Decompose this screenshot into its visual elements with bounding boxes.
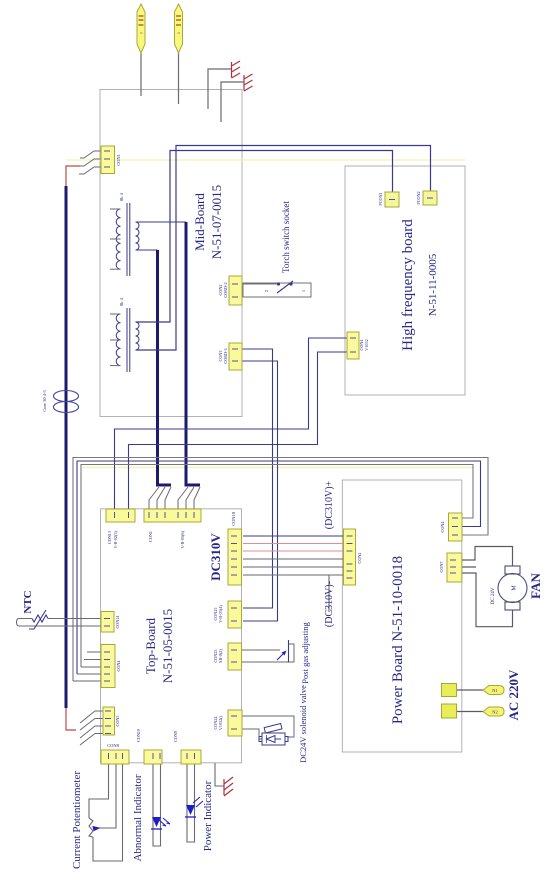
svg-text:Torch switch socket: Torch switch socket (281, 201, 291, 273)
wire CON3.1 to CON25.1 (242, 349, 273, 608)
svg-text:1: 1 (301, 290, 306, 292)
connector PCON1 High frequency board (378, 192, 399, 207)
torch switch socket outline (243, 283, 311, 297)
svg-text:V-H-02(3): V-H-02(3) (113, 530, 118, 548)
wire T2 secondary top to PCON1 (136, 151, 393, 323)
wire current potentiometer (89, 764, 123, 861)
wire CON1 Mid-Board fan-out (79, 151, 101, 174)
board High frequency board N-51-11-0005 outline (345, 166, 465, 395)
board label High frequency board (400, 219, 439, 351)
svg-text:High frequency board: High frequency board (400, 219, 416, 351)
wire torch socket 1 lead (140, 53, 142, 96)
wire DC310V to CON2 line2 pink (243, 543, 344, 545)
FAN motor (498, 566, 527, 610)
svg-text:0k 4: 0k 4 (119, 192, 124, 201)
connector CON10 Top-Board bottom (136, 729, 162, 764)
wire AC square 1 to terminal (457, 689, 484, 691)
svg-text:PCON1: PCON1 (378, 192, 383, 205)
connector CON13 Top-Board (106, 509, 135, 549)
wire CON2 Mid-Board to switch (242, 283, 277, 285)
svg-text:DC310V: DC310V (208, 533, 223, 581)
wire T1 secondary bottom to thick bus x157.5 (136, 249, 158, 251)
wire torch socket 2 lead (178, 53, 180, 104)
svg-text:CON4: CON4 (116, 660, 121, 672)
connector CON23 Top-Board (213, 643, 242, 670)
svg-text:CON14: CON14 (115, 615, 120, 629)
wire pale yellow net mid horizontal (81, 467, 473, 469)
svg-text:N2: N2 (492, 710, 498, 715)
transformer T1 (116, 203, 139, 276)
svg-text:SH-0(2): SH-0(2) (218, 649, 223, 663)
transformer T1 taps (110, 209, 121, 269)
wire DC310V to CON2 line4 gray (243, 558, 344, 560)
AC line terminal N2 (483, 707, 504, 716)
transformer T2 taps (110, 314, 121, 366)
wire CON24 to solenoid valve (242, 716, 294, 739)
svg-text:CON4: CON4 (440, 521, 445, 533)
connector CON14 Top-Board (101, 612, 120, 633)
wire red link to CON5 fan (66, 708, 76, 730)
wire mid bus line 2 (77, 461, 481, 674)
wire AC square 2 to terminal (457, 711, 484, 713)
wire CON5 fan-out (80, 711, 103, 745)
AC terminal block 1 (442, 684, 457, 697)
wire ground A lead (208, 69, 232, 109)
svg-text:Power Board N-51-10-0018: Power Board N-51-10-0018 (390, 556, 406, 724)
board Mid-Board N-51-07-0015 outline (100, 90, 242, 417)
wire CON13.1 to HF CON4.1 (115, 338, 348, 509)
torch output socket 1 (137, 4, 145, 53)
svg-text:DC 24V: DC 24V (491, 587, 496, 604)
wire ground B lead (221, 82, 244, 122)
svg-text:AC 220V: AC 220V (506, 669, 521, 721)
svg-text:Core 30 4-5: Core 30 4-5 (42, 390, 47, 412)
svg-text:CON1: CON1 (148, 531, 153, 542)
ferrite core on main lead (54, 391, 79, 413)
svg-text:N-51-11-0005: N-51-11-0005 (427, 253, 439, 316)
svg-text:N1: N1 (492, 688, 498, 693)
potentiometer wiper arrow (93, 827, 99, 831)
LED power indicator (185, 797, 203, 817)
NTC thermistor symbol (29, 610, 48, 629)
wire fan-out to V-H-05 pins of Top-Board (178, 487, 200, 509)
wire DC310V to CON2 line6 gray with branch (243, 575, 344, 612)
wire pale yellow net top horizontal (66, 159, 465, 161)
NTC loop wires (17, 619, 102, 627)
connector CON1 Mid-Board (101, 146, 121, 174)
wire DC310V to CON2 line3 pink (243, 550, 344, 552)
wire thick output x186 (186, 222, 200, 485)
svg-text:(DC310V)-: (DC310V)- (324, 581, 335, 627)
board Top-Board N-51-05-0015 outline (101, 509, 242, 763)
svg-text:V-H-05(6): V-H-05(6) (180, 530, 185, 548)
svg-text:FAN: FAN (528, 573, 543, 599)
board Power Board N-51-10-0018 outline (342, 480, 461, 752)
connector CON4 High frequency board (347, 332, 369, 359)
wire DC310V to CON2 line5 gray (243, 566, 344, 568)
potentiometer resistive element (89, 818, 93, 837)
wire CON4 Top-Board horizontals (73, 652, 103, 681)
switch contacts (277, 282, 293, 285)
wire T1 secondary top to thick bus x186 (136, 221, 187, 223)
board label Power Board (390, 556, 406, 724)
svg-text:NTC: NTC (22, 590, 34, 613)
svg-text:N-51-07-0015: N-51-07-0015 (209, 185, 224, 259)
svg-text:DC24V solenoid valve: DC24V solenoid valve (298, 685, 308, 763)
switch blade (277, 281, 293, 293)
connector CON8 Top-Board bottom (101, 743, 129, 764)
wire fan-out to CON1 pins of Top-Board (149, 487, 171, 509)
connector CON7 Power Board (439, 553, 462, 582)
ground symbol C (224, 777, 233, 796)
wire abnormal indicator loop (153, 764, 161, 846)
transformer T2 (116, 308, 139, 372)
wire thick output x157.5 (158, 250, 172, 485)
ground symbol A (232, 61, 241, 78)
wire CON7 to FAN loop (462, 547, 513, 627)
connector CON4 Power Board (440, 513, 462, 541)
svg-text:CON7: CON7 (439, 562, 444, 573)
svg-text:PCON2: PCON2 (416, 191, 421, 204)
wire T2 secondary bottom to PCON2 (136, 146, 431, 351)
gas trimmer element (288, 640, 290, 662)
wire CON13.2 to HF CON4.2 (129, 352, 348, 509)
connector CON2 Mid-Board (218, 276, 242, 305)
svg-text:CON2: CON2 (357, 553, 362, 564)
svg-text:V1052: V1052 (364, 339, 369, 350)
wire mid bus line 3 (81, 465, 473, 668)
svg-text:CON8: CON8 (107, 743, 120, 748)
gas trimmer arrow head (282, 651, 287, 656)
svg-text:Current Potentiometer: Current Potentiometer (71, 771, 83, 869)
svg-text:(DC310V)+: (DC310V)+ (324, 480, 335, 529)
svg-text:CON1: CON1 (116, 154, 121, 166)
wire DC310V to CON2 line1 navy (243, 535, 344, 537)
connector CON4 Top-Board (101, 645, 121, 688)
svg-text:CORD-3: CORD-3 (223, 348, 228, 363)
connector DC310V Top-Board (228, 529, 242, 585)
svg-text:Power Indicator: Power Indicator (202, 780, 214, 851)
svg-text:V1052(): V1052() (218, 715, 223, 730)
svg-text:CON9: CON9 (173, 731, 178, 742)
svg-text:M: M (512, 585, 518, 591)
svg-text:CORD-2: CORD-2 (223, 282, 228, 297)
connector CON25 Top-Board (213, 601, 242, 628)
board label Mid-Board (192, 185, 224, 259)
gas trimmer arrow (277, 652, 285, 660)
wire mid bus line 1 (73, 458, 488, 682)
svg-text:V-H-03(4): V-H-03(4) (218, 605, 223, 623)
svg-text:Top-Board: Top-Board (143, 617, 158, 674)
ground symbol B (244, 74, 253, 91)
connector CON5 Top-Board (103, 707, 120, 735)
solenoid valve arrow (267, 736, 276, 743)
svg-text:Abnormal Indicator: Abnormal Indicator (132, 774, 144, 861)
wire thick main lead left side (65, 186, 68, 708)
connector CON9 Top-Board bottom (173, 731, 201, 764)
wire to ground C (215, 763, 224, 786)
svg-text:CON10: CON10 (136, 729, 141, 742)
svg-text:Mid-Board: Mid-Board (192, 193, 207, 251)
connector CON2 Power Board (344, 529, 363, 585)
svg-text:N-51-05-0015: N-51-05-0015 (160, 609, 175, 683)
AC line terminal N1 (483, 686, 504, 695)
svg-text:CON10: CON10 (231, 511, 236, 526)
AC terminal block 2 (442, 704, 457, 718)
wire power indicator loop (187, 764, 195, 842)
connector CON24 Top-Board (213, 710, 242, 736)
torch output socket 2 (175, 4, 183, 53)
svg-text:CON13: CON13 (107, 531, 112, 544)
LED abnormal indicator (151, 817, 170, 829)
wire red link CON1 to main lead (66, 166, 80, 186)
solenoid valve body (259, 724, 288, 745)
svg-text:2: 2 (264, 290, 269, 292)
svg-text:0k 4: 0k 4 (119, 297, 124, 306)
connector CON1 and V-H-05 Top-Board (144, 509, 201, 549)
wire CON23 to gas trimmer (242, 644, 295, 662)
connector CON3 Mid-Board (218, 343, 242, 370)
connector PCON2 High frequency board (416, 191, 437, 205)
board label Top-Board (143, 609, 175, 683)
svg-text:CON5: CON5 (115, 716, 120, 727)
wire CON3.2 to CON25.2 (242, 361, 278, 621)
svg-text:Post gas adjusting: Post gas adjusting (300, 622, 310, 684)
